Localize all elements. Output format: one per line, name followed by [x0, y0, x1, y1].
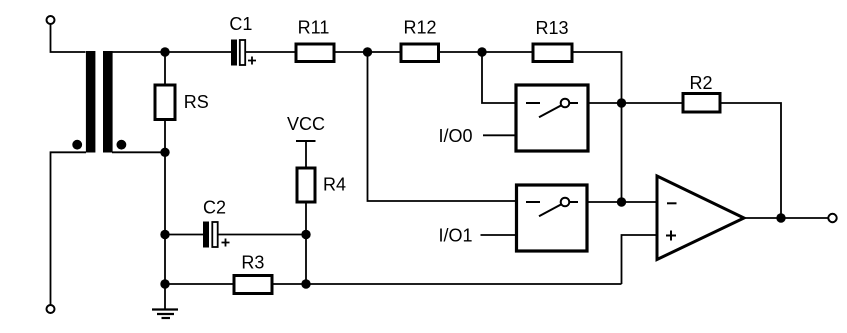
wire: [587, 201, 657, 203]
resistor RS: [155, 85, 175, 120]
terminal J3 (output): [828, 214, 836, 222]
svg-text:I/O0: I/O0: [439, 126, 473, 146]
switch U2 (analog switch I/O1): [517, 185, 588, 251]
svg-text:R13: R13: [535, 18, 568, 38]
node C (switch1 output junction): [617, 98, 626, 107]
wire: [164, 120, 166, 153]
wire (bottom rail): [272, 283, 622, 285]
op-amp U3: [657, 176, 744, 260]
wire: [368, 52, 517, 201]
node F (C2 left junction): [160, 230, 169, 239]
svg-text:RS: RS: [184, 92, 209, 112]
svg-text:C2: C2: [203, 198, 226, 218]
wire: [572, 52, 622, 103]
wire: [621, 103, 623, 202]
wire: [588, 102, 683, 104]
wire: [720, 103, 781, 218]
terminal J1 (top-left input): [47, 16, 55, 24]
resistor R4: [297, 168, 315, 202]
wire: [439, 51, 534, 53]
wire: [481, 234, 517, 236]
wire: [246, 51, 297, 53]
wire: [744, 217, 829, 219]
wire: [482, 52, 516, 103]
wire: [622, 235, 658, 284]
wire: [112, 151, 165, 153]
wire: [483, 134, 516, 136]
node E (output junction): [776, 213, 785, 222]
wire: [165, 234, 203, 236]
svg-text:R2: R2: [689, 73, 712, 93]
node B (R12/R13 junction): [477, 47, 486, 56]
wire: [164, 235, 166, 285]
resistor R13: [533, 44, 572, 62]
node H (ground junction): [160, 279, 169, 288]
wire: [51, 24, 86, 52]
svg-text:R12: R12: [403, 17, 436, 37]
wire (bottom rail): [165, 283, 234, 285]
wire: [305, 202, 307, 284]
node A (R11/R12 junction): [363, 47, 372, 56]
capacitor C1: [231, 40, 256, 66]
terminal J2 (bottom-left input): [47, 305, 55, 313]
wire: [112, 51, 231, 53]
wire: [334, 51, 401, 53]
node I (R4 bottom rail junction): [301, 279, 310, 288]
svg-text:R4: R4: [323, 175, 346, 195]
switch U1 (analog switch I/O0): [516, 85, 588, 151]
power VCC rail tick: [296, 140, 316, 142]
wire: [305, 141, 307, 168]
svg-text:C1: C1: [229, 14, 252, 34]
resistor R12: [401, 44, 439, 62]
svg-text:I/O1: I/O1: [439, 226, 473, 246]
node G (C2/R4 junction): [301, 230, 310, 239]
transformer T1: [72, 51, 126, 153]
capacitor C2: [203, 222, 230, 248]
wire: [218, 234, 306, 236]
wire: [51, 152, 87, 305]
wire: [164, 52, 166, 85]
ground: [152, 284, 178, 318]
node D (op-amp inverting input junction): [617, 197, 626, 206]
resistor R3: [234, 276, 272, 294]
svg-text:VCC: VCC: [287, 114, 325, 134]
node (junction top of RS): [160, 47, 169, 56]
wire: [164, 152, 166, 235]
resistor R2: [683, 94, 720, 113]
node (junction bottom of RS): [160, 148, 169, 157]
svg-text:R3: R3: [241, 253, 264, 273]
resistor R11: [296, 44, 334, 62]
svg-text:R11: R11: [298, 17, 330, 37]
